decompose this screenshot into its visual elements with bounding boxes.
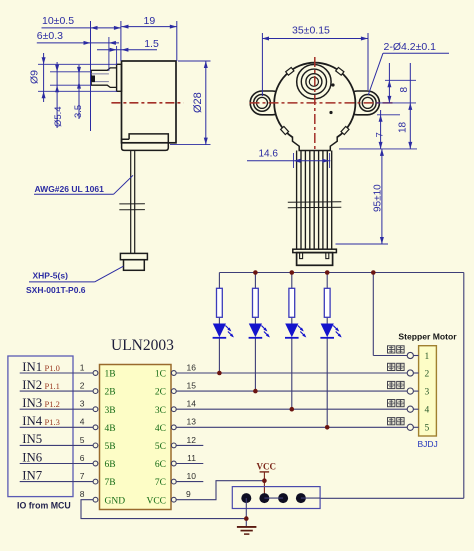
dim Φ5.4 bbox=[50, 71, 91, 73]
wire output 2C to connector pin 3 bbox=[176, 390, 407, 392]
svg-text:5B: 5B bbox=[105, 442, 116, 452]
svg-text:16: 16 bbox=[187, 362, 197, 372]
wire color label purple bbox=[388, 400, 395, 407]
svg-text:10±0.5: 10±0.5 bbox=[42, 15, 74, 27]
face screw dots bbox=[331, 83, 334, 86]
dim 18 bbox=[409, 63, 411, 149]
pin circle left 4 bbox=[93, 425, 98, 430]
svg-text:IN6: IN6 bbox=[22, 450, 43, 464]
svg-text:IN5: IN5 bbox=[22, 432, 42, 446]
svg-text:6: 6 bbox=[80, 453, 85, 463]
svg-text:AWG#26 UL 1061: AWG#26 UL 1061 bbox=[35, 184, 105, 194]
wire column LED 3 bbox=[291, 273, 293, 289]
wire color label red bbox=[388, 346, 395, 353]
pin circle left 7 bbox=[93, 479, 98, 484]
svg-text:2-Ø4.2±0.1: 2-Ø4.2±0.1 bbox=[384, 41, 437, 53]
input wire IN5 bbox=[20, 444, 94, 446]
connector pin 5 circle bbox=[407, 424, 413, 430]
wire column LED 1 bbox=[218, 273, 220, 289]
resistor R3 bbox=[289, 288, 295, 317]
svg-text:ULN2003: ULN2003 bbox=[111, 337, 174, 354]
ground symbol bbox=[237, 526, 257, 528]
svg-text:4B: 4B bbox=[105, 424, 116, 434]
pin circle right 12 bbox=[171, 443, 176, 448]
svg-text:5C: 5C bbox=[155, 442, 166, 452]
connector BJDJ box bbox=[419, 346, 437, 436]
motor shaft side profile bbox=[91, 68, 116, 88]
svg-text:VCC: VCC bbox=[146, 496, 166, 506]
IO input box bbox=[8, 356, 73, 497]
wire break marks bbox=[119, 203, 145, 205]
wire output 4C to connector pin 5 bbox=[176, 426, 407, 428]
left ear hole bbox=[254, 95, 271, 112]
svg-text:7B: 7B bbox=[105, 478, 116, 488]
svg-text:7: 7 bbox=[375, 132, 386, 137]
svg-text:5: 5 bbox=[80, 435, 85, 445]
svg-text:11: 11 bbox=[187, 453, 196, 463]
svg-text:3: 3 bbox=[425, 388, 430, 398]
pin circle right 9 bbox=[171, 497, 176, 502]
wire output 3C to connector pin 4 bbox=[176, 408, 407, 410]
LED D3 bbox=[285, 324, 298, 338]
svg-text:IN2: IN2 bbox=[22, 378, 42, 392]
connector pin 2 circle bbox=[407, 370, 413, 376]
rim notches bbox=[336, 67, 344, 75]
input wire IN2 bbox=[20, 390, 94, 392]
svg-text:3: 3 bbox=[80, 399, 85, 409]
pin circle left 1 bbox=[93, 371, 98, 376]
connector pin 1 circle bbox=[407, 352, 413, 358]
svg-text:Ø5.4: Ø5.4 bbox=[53, 106, 64, 127]
jumper pin 1 bbox=[241, 493, 251, 503]
wire VCC pin9 bbox=[176, 481, 264, 500]
wire: bus drop to connector pin1 bbox=[372, 273, 374, 356]
jumper pin 3 bbox=[278, 493, 288, 503]
svg-text:1.5: 1.5 bbox=[144, 38, 159, 50]
junction on bus at R4 bbox=[325, 270, 330, 275]
svg-text:IN4: IN4 bbox=[22, 414, 43, 428]
XHP connector (side view) bbox=[120, 253, 147, 259]
svg-text:3.5: 3.5 bbox=[73, 105, 84, 118]
svg-text:10: 10 bbox=[187, 471, 197, 481]
jumper pin 4 bbox=[296, 493, 306, 503]
shaft tip dark end bbox=[91, 76, 95, 83]
svg-text:6C: 6C bbox=[155, 460, 166, 470]
wire color label orange bbox=[388, 363, 395, 370]
svg-text:18: 18 bbox=[398, 121, 409, 133]
svg-text:8: 8 bbox=[80, 489, 85, 499]
LED D4 bbox=[321, 324, 334, 338]
wire jumper to ground bbox=[245, 498, 247, 527]
stub wire pin 10 bbox=[176, 481, 203, 483]
jumper block bbox=[232, 487, 320, 509]
pin circle right 14 bbox=[171, 407, 176, 412]
pin circle right 10 bbox=[171, 479, 176, 484]
svg-text:7: 7 bbox=[80, 471, 85, 481]
svg-text:Stepper Motor: Stepper Motor bbox=[398, 332, 457, 342]
input wire IN3 bbox=[20, 408, 94, 410]
shaft boss circles bbox=[297, 65, 331, 99]
pin circle left 3 bbox=[93, 407, 98, 412]
svg-text:6B: 6B bbox=[105, 460, 116, 470]
junction bus to connector pin1 bbox=[371, 270, 376, 275]
dim Φ9 bbox=[38, 63, 117, 65]
junction LED D4 to output bbox=[325, 425, 330, 430]
op chip ULN2003 bbox=[100, 365, 172, 510]
svg-text:6±0.3: 6±0.3 bbox=[37, 30, 63, 42]
input wire IN1 bbox=[20, 372, 94, 374]
input wire IN7 bbox=[20, 481, 94, 483]
svg-text:XHP-5(s): XHP-5(s) bbox=[33, 270, 69, 280]
input wire IN6 bbox=[20, 463, 94, 465]
resistor R2 bbox=[253, 288, 259, 317]
front view right mounting ear bbox=[345, 91, 379, 115]
svg-text:P1.1: P1.1 bbox=[45, 381, 60, 391]
wire column LED 4 bbox=[326, 273, 328, 289]
dim 3.5 bbox=[78, 65, 80, 119]
bundle break marks bbox=[288, 201, 342, 203]
front view left mounting ear bbox=[250, 91, 284, 115]
front view red centerlines bbox=[250, 102, 395, 104]
pin circle left 2 bbox=[93, 389, 98, 394]
pin circle left 6 bbox=[93, 461, 98, 466]
dim 8 bbox=[385, 79, 416, 81]
wire color label blue bbox=[388, 418, 395, 425]
dim Φ28 bbox=[178, 60, 211, 62]
svg-text:4: 4 bbox=[425, 406, 430, 416]
front view wire bundle bbox=[296, 151, 298, 250]
svg-text:15: 15 bbox=[187, 381, 197, 391]
pin circle right 16 bbox=[171, 371, 176, 376]
connector pin 4 circle bbox=[407, 406, 413, 412]
right ear hole bbox=[359, 95, 376, 112]
dim 95±10 bbox=[339, 148, 417, 150]
svg-text:2: 2 bbox=[80, 381, 85, 391]
stub wire pin 11 bbox=[176, 463, 203, 465]
svg-text:1: 1 bbox=[80, 362, 85, 372]
svg-text:7C: 7C bbox=[155, 478, 166, 488]
svg-text:1B: 1B bbox=[105, 370, 116, 380]
svg-text:1C: 1C bbox=[155, 370, 166, 380]
svg-text:Ø28: Ø28 bbox=[192, 92, 204, 113]
pin circle right 13 bbox=[171, 425, 176, 430]
svg-text:2B: 2B bbox=[105, 388, 116, 398]
svg-text:3B: 3B bbox=[105, 406, 116, 416]
stub wire pin 12 bbox=[176, 444, 203, 446]
XHP connector (front view) bbox=[293, 249, 337, 252]
wire color label yellow bbox=[388, 381, 395, 388]
side view red centerline bbox=[111, 102, 183, 104]
svg-text:95±10: 95±10 bbox=[373, 184, 384, 212]
svg-text:P1.2: P1.2 bbox=[45, 399, 60, 409]
pin circle right 15 bbox=[171, 389, 176, 394]
wire: right vertical VCC rail bbox=[463, 273, 465, 499]
svg-text:14.6: 14.6 bbox=[259, 149, 279, 160]
svg-text:BJDJ: BJDJ bbox=[418, 439, 438, 449]
dim 7 bbox=[377, 114, 400, 116]
wire GND pin8 bbox=[81, 500, 246, 519]
motor bottom mount plate bbox=[122, 134, 169, 151]
svg-text:4: 4 bbox=[80, 417, 85, 427]
svg-text:Ø9: Ø9 bbox=[29, 70, 41, 84]
svg-text:IN1: IN1 bbox=[22, 360, 42, 374]
svg-text:2C: 2C bbox=[155, 388, 166, 398]
pin circle left 8 bbox=[93, 497, 98, 502]
motor side view body bbox=[122, 61, 177, 143]
junction LED D3 to output bbox=[290, 407, 295, 412]
junction on bus at R2 bbox=[253, 270, 258, 275]
svg-text:IN7: IN7 bbox=[22, 468, 43, 482]
svg-text:4C: 4C bbox=[155, 424, 166, 434]
svg-text:14: 14 bbox=[187, 399, 197, 409]
svg-text:13: 13 bbox=[187, 417, 197, 427]
pin circle left 5 bbox=[93, 443, 98, 448]
wire: top VCC bus bbox=[219, 272, 463, 274]
svg-text:12: 12 bbox=[187, 435, 197, 445]
svg-text:19: 19 bbox=[144, 15, 156, 27]
svg-text:IN3: IN3 bbox=[22, 396, 42, 410]
resistor R4 bbox=[324, 288, 330, 317]
junction LED D2 to output bbox=[253, 389, 258, 394]
junction LED D1 to output bbox=[217, 371, 222, 376]
svg-text:VCC: VCC bbox=[257, 462, 277, 472]
wire output 1C to connector pin 2 bbox=[176, 372, 407, 374]
resistor R1 bbox=[217, 288, 223, 317]
jumper pin 2 bbox=[259, 493, 269, 503]
svg-text:SXH-001T-P0.6: SXH-001T-P0.6 bbox=[26, 285, 86, 295]
svg-text:2: 2 bbox=[425, 369, 430, 379]
svg-text:1: 1 bbox=[425, 352, 430, 362]
front view motor body circle bbox=[274, 63, 355, 144]
svg-text:9: 9 bbox=[186, 489, 191, 499]
svg-text:IO from MCU: IO from MCU bbox=[17, 501, 71, 511]
shaft flat lines bbox=[91, 73, 109, 75]
wire column LED 2 bbox=[254, 273, 256, 289]
svg-text:8: 8 bbox=[399, 87, 410, 93]
svg-text:P1.0: P1.0 bbox=[45, 363, 60, 373]
svg-text:5: 5 bbox=[425, 424, 430, 434]
LED D1 bbox=[213, 324, 226, 338]
pin circle right 11 bbox=[171, 461, 176, 466]
motor side view collar boss bbox=[117, 64, 122, 91]
junction on bus at R3 bbox=[290, 270, 295, 275]
extension lines top bbox=[90, 21, 92, 131]
svg-text:3C: 3C bbox=[155, 406, 166, 416]
connector pin 3 circle bbox=[407, 388, 413, 394]
svg-text:P1.3: P1.3 bbox=[45, 417, 60, 427]
wire exit trapezoid bbox=[293, 137, 338, 151]
svg-text:GND: GND bbox=[105, 496, 126, 506]
LED D2 bbox=[249, 324, 262, 338]
lead wire (side view) bbox=[130, 150, 132, 253]
input wire IN4 bbox=[20, 426, 94, 428]
svg-text:35±0.15: 35±0.15 bbox=[292, 24, 330, 36]
